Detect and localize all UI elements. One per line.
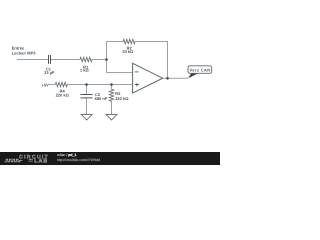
svg-text:220 kΩ: 220 kΩ (56, 93, 70, 98)
svg-text:Lecteur MP3: Lecteur MP3 (12, 51, 37, 56)
svg-text:+5V: +5V (41, 83, 49, 88)
svg-text:http://circuitlab.com/c/7W5xM: http://circuitlab.com/c/7W5xM (57, 158, 100, 162)
svg-text:680 nF: 680 nF (95, 96, 108, 101)
svg-text:milan / pd_1: milan / pd_1 (57, 153, 77, 157)
svg-text:LAB: LAB (34, 159, 48, 165)
svg-text:220 kΩ: 220 kΩ (115, 96, 129, 101)
svg-text:Vers CAN: Vers CAN (189, 67, 210, 72)
svg-text:33 kΩ: 33 kΩ (122, 49, 134, 54)
svg-text:33 µF: 33 µF (44, 70, 55, 75)
svg-text:1 kΩ: 1 kΩ (80, 68, 90, 73)
